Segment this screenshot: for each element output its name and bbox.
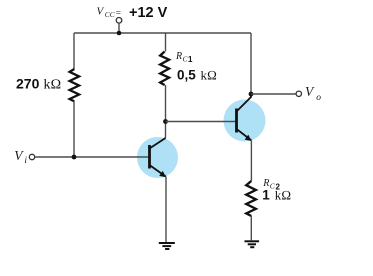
node Vi terminal circle	[29, 154, 34, 159]
wire Vcc tap stem	[118, 23, 120, 33]
svg-text:270: 270	[16, 76, 40, 92]
wire Q1 emitter to ground	[165, 177, 167, 242]
wire left branch upper	[73, 33, 75, 69]
label RC1	[175, 51, 193, 64]
svg-text:kΩ: kΩ	[44, 78, 62, 93]
wire node A to Q2 base	[166, 121, 237, 123]
svg-text:1: 1	[262, 188, 270, 203]
label Vo	[305, 84, 321, 103]
wire middle branch upper	[165, 33, 167, 52]
svg-text:R: R	[175, 51, 182, 62]
junction Vo / Q2 collector	[249, 92, 254, 97]
junction Vcc on rail	[117, 31, 122, 36]
svg-text:V: V	[305, 84, 315, 99]
wire middle branch lower to Q1 collector	[165, 85, 167, 138]
wire Vo output lead	[251, 93, 296, 95]
wire left branch lower	[73, 101, 75, 157]
svg-text:V: V	[97, 6, 105, 18]
junction Vi / 270k node	[72, 155, 77, 160]
wire top supply rail	[74, 32, 251, 34]
svg-text:kΩ: kΩ	[275, 188, 292, 203]
label 1 kOhm	[262, 188, 291, 203]
node Vo terminal circle	[296, 91, 301, 96]
label +12 V	[129, 5, 168, 21]
transistor Q2 highlight circle	[224, 100, 266, 142]
transistor Q1 highlight circle	[137, 137, 178, 178]
svg-text:CC: CC	[105, 10, 116, 19]
svg-text:kΩ: kΩ	[201, 67, 218, 82]
label RC2	[262, 178, 280, 191]
svg-text:1: 1	[188, 55, 193, 64]
node Vcc terminal circle	[116, 18, 122, 24]
ground under RC2	[245, 241, 260, 247]
transistor Q1 symbol	[150, 138, 166, 177]
label Vcc =	[97, 6, 121, 19]
resistor R1 270 kOhm	[70, 69, 80, 101]
resistor RC2 1 kOhm	[246, 181, 256, 216]
svg-text:V: V	[14, 148, 24, 163]
label 0,5 kOhm	[177, 67, 217, 82]
svg-text:+12 V: +12 V	[129, 5, 168, 21]
svg-text:i: i	[24, 156, 27, 166]
label 270 kOhm	[16, 76, 61, 93]
svg-text:0,5: 0,5	[177, 67, 196, 82]
ground under Q1	[159, 243, 175, 249]
wire Vi to Q1 base	[35, 156, 149, 158]
wire Q2 emitter to RC2	[250, 140, 252, 181]
junction node A (RC1 / Q2 base / Q1 collector)	[163, 119, 168, 124]
resistor RC1 0,5 kOhm	[160, 52, 169, 86]
wire RC2 to ground	[250, 216, 252, 240]
transistor Q2 symbol	[237, 96, 252, 142]
svg-text:=: =	[116, 8, 121, 18]
label Vi	[14, 148, 27, 166]
svg-text:o: o	[316, 93, 321, 103]
wire right branch from rail to Vo node	[250, 33, 252, 94]
